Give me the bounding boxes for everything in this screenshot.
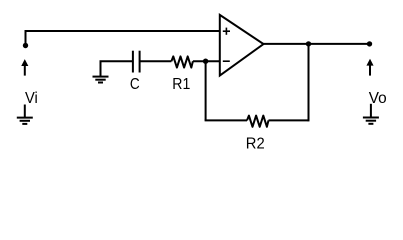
svg-text:Vi: Vi — [25, 90, 38, 107]
Vo arrow — [367, 60, 373, 76]
Vi arrow — [22, 60, 28, 76]
capacitor C — [133, 51, 140, 73]
node Vo terminal dot — [367, 41, 372, 46]
wire top from Vi node to op-amp + input — [26, 31, 220, 45]
ground for capacitor C — [93, 77, 109, 83]
wire capacitor to R1 — [140, 60, 172, 62]
wire feedback left vertical — [205, 61, 207, 120]
ground for Vi — [17, 105, 33, 124]
svg-text:R1: R1 — [172, 76, 190, 93]
wire feedback bottom right — [269, 119, 309, 121]
op-amp - input marker — [223, 60, 230, 62]
node feedback junction dot — [203, 59, 208, 64]
node output junction dot — [306, 41, 311, 46]
resistor R1 — [171, 56, 193, 67]
svg-text:C: C — [130, 76, 140, 93]
op-amp + input marker — [223, 28, 230, 35]
node Vi terminal dot — [23, 43, 28, 48]
op-amp U1 triangle — [220, 15, 264, 76]
resistor R2 — [247, 116, 269, 127]
wire op-amp output to Vo — [263, 43, 370, 45]
svg-text:R2: R2 — [246, 135, 265, 152]
wire ground to capacitor — [101, 61, 133, 76]
ground for Vo — [363, 104, 379, 124]
wire R1 to op-amp - input — [193, 60, 220, 62]
wire feedback right vertical — [308, 44, 310, 122]
wire feedback bottom left — [206, 119, 247, 120]
